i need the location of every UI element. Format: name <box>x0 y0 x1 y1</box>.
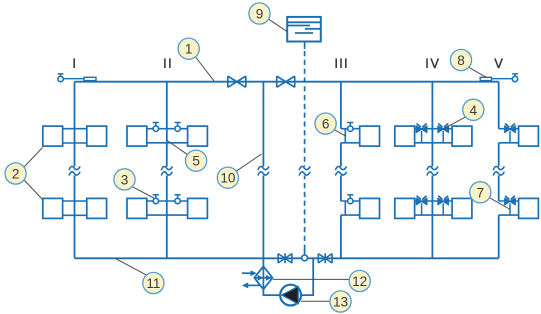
wire: riser V <box>498 82 500 259</box>
left vent pipe <box>63 78 84 80</box>
node IV <box>426 58 428 68</box>
callout 10 <box>217 154 261 188</box>
svg-text:1: 1 <box>185 42 193 57</box>
valve 2 on supply main <box>277 76 295 87</box>
svg-text:6: 6 <box>322 117 330 132</box>
radiator group riser IV bottom <box>395 196 472 218</box>
node III <box>336 58 346 68</box>
callout 8 <box>450 49 486 77</box>
radiator group riser II top <box>127 123 207 147</box>
right air vent <box>512 74 518 82</box>
svg-text:2: 2 <box>12 167 20 182</box>
node II <box>165 58 170 68</box>
svg-text:10: 10 <box>220 171 236 186</box>
radiator riser III bottom <box>341 195 380 219</box>
wire: riser I <box>74 82 76 259</box>
break riser II <box>161 166 173 175</box>
callout 13 <box>301 291 351 312</box>
radiator riser V bottom <box>499 196 539 218</box>
right vent pipe <box>492 78 513 80</box>
junction circle to expansion line <box>302 255 308 261</box>
radiator group riser II bottom <box>127 195 207 219</box>
radiator riser V top <box>499 124 539 146</box>
outflow arrow <box>242 282 260 288</box>
wire: downcomer to elevator <box>262 82 264 267</box>
callout 12 <box>273 270 370 291</box>
break riser IV <box>427 166 439 175</box>
radiator group riser I top <box>43 126 107 146</box>
wire: bottom return main <box>75 257 499 259</box>
expansion line (dashed) <box>304 42 306 50</box>
expansion tank <box>287 17 321 42</box>
svg-text:12: 12 <box>352 274 367 289</box>
break downcomer <box>258 166 270 175</box>
node I <box>73 58 75 68</box>
pump suction pipe <box>263 289 280 295</box>
svg-text:13: 13 <box>333 295 348 310</box>
wire: top supply main <box>75 81 499 83</box>
right union fitting <box>480 77 491 80</box>
valve 1 on supply main <box>228 76 246 87</box>
valve on return right of junction <box>318 253 332 263</box>
radiator group riser I bottom <box>43 198 107 218</box>
callout 3 <box>114 169 154 198</box>
break riser V <box>493 166 505 175</box>
left air vent <box>58 74 64 82</box>
elevator <box>254 266 272 289</box>
svg-text:11: 11 <box>146 276 160 291</box>
svg-text:7: 7 <box>477 185 485 200</box>
break riser I <box>69 166 81 175</box>
left union fitting <box>84 77 96 80</box>
callout 7 <box>470 182 511 210</box>
svg-text:9: 9 <box>256 7 264 22</box>
node V <box>495 58 502 68</box>
wire: riser III <box>340 82 342 259</box>
svg-text:8: 8 <box>457 53 465 68</box>
svg-text:3: 3 <box>121 172 129 187</box>
inflow arrow <box>242 270 257 276</box>
break expansion line <box>299 166 311 175</box>
wire: riser II <box>166 82 168 259</box>
callout 1 <box>178 38 214 81</box>
callout 6 <box>315 113 346 136</box>
break riser III <box>335 166 347 175</box>
pump <box>280 285 301 306</box>
radiator riser III top <box>341 123 380 147</box>
svg-text:4: 4 <box>470 103 478 118</box>
callout 9 <box>249 3 288 32</box>
callout 11 <box>115 258 164 293</box>
callout 2 <box>5 148 43 200</box>
radiator group riser IV top <box>395 124 472 146</box>
valve on return left of junction <box>278 253 292 263</box>
wire: riser IV <box>431 82 433 259</box>
callout 4 <box>443 99 484 129</box>
callout 5 <box>166 140 206 171</box>
svg-text:5: 5 <box>192 154 200 169</box>
pump discharge pipe <box>301 258 313 295</box>
